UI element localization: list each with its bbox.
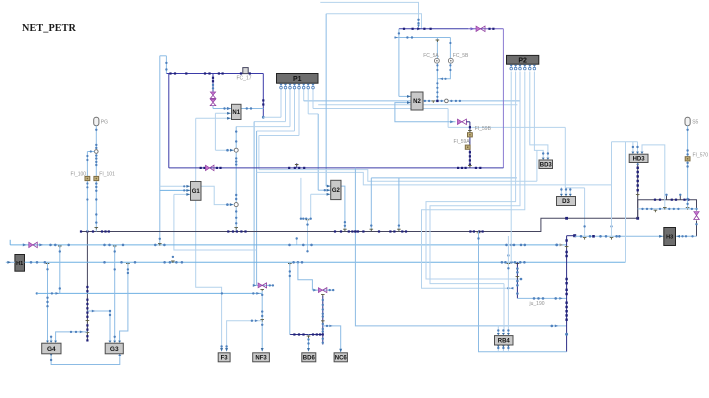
- svg-text:G1: G1: [192, 189, 201, 195]
- wire P1 pin7 east: [308, 113, 318, 115]
- wire navy line n2top: [399, 28, 468, 30]
- node dark chain dots: [86, 286, 88, 342]
- wire D3 pin3 stub: [569, 187, 571, 196]
- wire G1 pin2 line: [160, 189, 191, 191]
- node n2 vert dots: [398, 32, 400, 34]
- pin valve V2 in: [471, 27, 475, 30]
- junction tee pg: [95, 227, 99, 229]
- node dark dots west: [80, 230, 110, 232]
- sink BD3: [539, 160, 553, 169]
- pin G2 in1: [327, 185, 331, 188]
- pin BD3 in1: [542, 158, 545, 160]
- instrument FC_5B: [448, 58, 453, 63]
- svg-text:FI_570: FI_570: [693, 153, 709, 159]
- wire x611 drop: [611, 142, 613, 237]
- wire NC6 route: [323, 326, 341, 352]
- wire hook top: [160, 55, 167, 57]
- wire P1 pin3 west: [236, 126, 290, 128]
- wire jog y188: [565, 187, 584, 189]
- node dark dots g2: [334, 230, 365, 232]
- label FI_101: [99, 171, 115, 177]
- junction tee chain87 a: [86, 321, 90, 323]
- wire G2 pin3 line: [311, 193, 331, 195]
- svg-text:FI_59A: FI_59A: [454, 139, 471, 145]
- wire valve chain: [212, 74, 214, 92]
- node PG split: [95, 150, 99, 154]
- pin ju east arrow: [559, 297, 562, 300]
- node navy right vert end: [262, 116, 265, 119]
- wire dark main line: [81, 200, 697, 232]
- wire HD3 pin2 stub: [637, 142, 639, 154]
- node junction J2: [234, 203, 238, 207]
- wire purple vertical: [502, 29, 504, 168]
- pin RB4 in2: [502, 333, 505, 335]
- wire HD3 top line: [612, 141, 638, 143]
- pin bus245 valve out: [39, 243, 43, 246]
- node fi100 dots: [86, 150, 92, 200]
- wire drop x584: [584, 188, 586, 236]
- pin H1 in: [7, 261, 11, 264]
- wire line to H3: [575, 235, 664, 237]
- pin F3 arrow1: [220, 348, 223, 352]
- label ju_190: [529, 301, 545, 307]
- source S5: [685, 117, 690, 125]
- sink NF3: [253, 353, 270, 362]
- node hd3 pin dots: [632, 146, 639, 148]
- node bus262 dots b: [103, 261, 183, 264]
- wire P1 pin7: [307, 89, 309, 114]
- junction v2chain tee: [321, 321, 325, 323]
- label FI_59A: [454, 139, 471, 145]
- svg-text:RB4: RB4: [498, 338, 511, 344]
- wire pin5 drop: [258, 136, 260, 170]
- node nf3 dots2: [261, 324, 263, 326]
- svg-text:FI_100: FI_100: [71, 171, 87, 177]
- pin BD6 arrow: [307, 348, 310, 352]
- node f3p2 dots: [251, 320, 253, 322]
- junction l209 tee655: [654, 210, 658, 212]
- node fc5a dots: [436, 64, 438, 98]
- wire G1 bottom route: [196, 200, 222, 350]
- pin N2 in2: [407, 101, 411, 104]
- wire HD3 pin1 stub: [632, 142, 634, 154]
- pin G1 in1: [186, 185, 190, 188]
- wire long line y293: [48, 292, 263, 294]
- node h3 right dots: [681, 235, 693, 237]
- label FC_17: [237, 76, 252, 82]
- wire line to D3: [257, 172, 612, 185]
- wire P1 pin4: [294, 89, 296, 132]
- pin valve1 in: [253, 284, 257, 287]
- svg-text:FI_59B: FI_59B: [475, 126, 492, 132]
- wire valve2 feed: [298, 262, 313, 290]
- wire BD6 stub: [308, 335, 310, 351]
- pin ju branch arrow: [510, 287, 513, 290]
- node cluster dots: [300, 218, 312, 220]
- pin P2 out6: [533, 65, 536, 70]
- node bus262 dots d: [501, 261, 526, 264]
- pin rb4line arrow: [555, 325, 558, 328]
- pin N1 in1: [227, 107, 231, 110]
- wire G4 pin1 riser: [47, 262, 49, 341]
- node valve1 dots: [269, 284, 275, 286]
- node rb4 top dots: [497, 329, 510, 331]
- node pg dots1: [95, 129, 97, 149]
- pin n2top arrow: [417, 27, 421, 30]
- node pg dots2: [95, 154, 97, 166]
- pin y293 arrow e: [256, 292, 259, 295]
- node bus245 dots d: [505, 244, 526, 247]
- wire RB4 pin1 stub: [497, 326, 499, 333]
- valve V6: [29, 242, 38, 248]
- svg-text:D3: D3: [562, 199, 570, 205]
- pin valve V3 in: [450, 120, 454, 123]
- valve V3: [457, 119, 466, 125]
- node dark dot x566: [565, 217, 568, 220]
- wire Z2: [430, 72, 520, 284]
- junction bus tee: [295, 165, 299, 167]
- node circle feed dot: [226, 149, 229, 152]
- label S5: [692, 120, 698, 126]
- junction tee x344: [343, 229, 347, 231]
- wire G1 right route: [201, 186, 234, 204]
- node bus262 dots c: [292, 261, 303, 264]
- instrument FC_17: [243, 68, 248, 74]
- pin N1 in3: [227, 117, 231, 120]
- junction bd6 tee: [307, 336, 311, 338]
- device H3: [664, 228, 676, 246]
- wire N1 circle chain: [235, 127, 237, 232]
- wire v2chain tail: [322, 335, 324, 345]
- node N1: [232, 104, 242, 119]
- wire cluster drop: [307, 219, 309, 245]
- wire G1 top riser: [195, 118, 197, 181]
- node g3p2 dots: [114, 250, 116, 338]
- wire S5 chain: [687, 126, 689, 209]
- wire dark chain x87: [86, 232, 88, 341]
- svg-text:NF3: NF3: [255, 355, 267, 361]
- node g1p2 dot: [183, 189, 185, 191]
- node g4 bottom dot: [50, 359, 52, 361]
- wire RB4 pin3 drop: [507, 262, 509, 333]
- pin P1 out3: [288, 84, 291, 89]
- junction valve1 tee: [260, 289, 264, 291]
- node pg dots3: [95, 182, 97, 223]
- node g4p2 dot: [50, 336, 52, 338]
- wire pin8 jog down: [447, 109, 449, 128]
- sink BD6: [302, 353, 316, 362]
- valve V1a: [210, 92, 216, 99]
- wire stub 666: [666, 194, 668, 199]
- node g2 right stub dot: [344, 221, 346, 227]
- label PG: [101, 120, 108, 126]
- pin G4 in1: [46, 341, 49, 343]
- wire navy top line: [167, 73, 264, 75]
- svg-text:G3: G3: [110, 346, 119, 353]
- wire bus stub up: [296, 237, 298, 245]
- instrument FI_101: [94, 176, 99, 180]
- node v2tail dots: [322, 338, 324, 344]
- wire Z1: [426, 72, 521, 280]
- wire bus 245 end stub: [9, 240, 11, 245]
- pin D3 in3: [569, 194, 572, 196]
- junction tee bus245 x159: [158, 244, 162, 246]
- junction tee FC5A top: [436, 40, 440, 42]
- wire bd6 feed vert: [289, 262, 291, 334]
- node bus stub dot: [296, 237, 298, 239]
- wire H3 right: [676, 235, 697, 237]
- node s5 dots: [686, 129, 688, 205]
- node fi59 dots: [469, 126, 471, 166]
- source PG: [94, 117, 99, 125]
- wire chain566 top corner: [567, 235, 575, 237]
- node bus245 dots b: [154, 244, 166, 247]
- junction l209 tee687: [686, 208, 690, 210]
- wire drop x398: [398, 178, 400, 232]
- pin P2 out1: [510, 65, 513, 70]
- svg-text:BD3: BD3: [540, 162, 553, 168]
- node l209 dots: [641, 208, 693, 210]
- sink NC6: [334, 353, 347, 362]
- node fc5b dots: [449, 42, 451, 71]
- wire Z3: [422, 72, 525, 289]
- node nf3 dots: [261, 294, 263, 318]
- wire P1 pin1 west: [263, 116, 281, 118]
- svg-text:PG: PG: [101, 120, 108, 126]
- junction tee x478: [477, 233, 481, 235]
- wire PG branch: [87, 151, 94, 153]
- svg-text:N1: N1: [232, 110, 240, 116]
- wire PG chain: [95, 126, 97, 232]
- wire RB4 bot1: [497, 345, 499, 352]
- well G4: [42, 343, 61, 354]
- pin RB4 in3: [507, 333, 510, 335]
- wire P1 pin4 west: [257, 130, 295, 132]
- pin F3 arrow2: [225, 348, 228, 352]
- junction tee chain87 b: [86, 332, 90, 334]
- pin P1 out8: [311, 84, 314, 89]
- junction tee bus262 x517: [516, 264, 520, 266]
- wire P1 pin6 east line: [304, 100, 520, 102]
- wire valve-N1 horizontal: [213, 108, 232, 110]
- instrument FI_100: [85, 176, 90, 180]
- pin lineA arrow: [417, 25, 420, 28]
- wire y37 branch: [394, 37, 450, 39]
- wire G3 pin1 route: [87, 311, 110, 341]
- node ju east dots: [533, 297, 557, 300]
- pin H3 in right: [676, 235, 680, 238]
- sink F3: [218, 353, 230, 362]
- wire P1 pin8: [312, 89, 314, 109]
- wire ju chain: [516, 262, 518, 298]
- junction h3line tee585: [583, 238, 587, 240]
- junction tee bus245 x114: [113, 246, 117, 248]
- node dark dots mid: [378, 230, 407, 232]
- junction nf3 tee: [260, 320, 264, 322]
- node c566 dots b: [565, 278, 567, 295]
- svg-text:H1: H1: [16, 261, 23, 267]
- svg-text:H3: H3: [666, 234, 673, 240]
- svg-text:P1: P1: [293, 76, 302, 83]
- wire bd6 navy: [290, 334, 323, 336]
- wire navy right vertical: [262, 74, 264, 118]
- node bus262 dot x172: [172, 256, 174, 258]
- node c566 dots c: [565, 302, 567, 321]
- node valve2 dots: [329, 289, 335, 291]
- wire G4 bottom route: [51, 354, 120, 365]
- node lineA drop dots: [417, 19, 419, 25]
- pin P2 out2: [514, 65, 517, 70]
- wire G2 pin2 riser: [317, 114, 319, 190]
- junction tee bus fi59: [468, 166, 472, 168]
- node h3line dots: [580, 235, 621, 238]
- node cluster stub dots: [306, 223, 308, 252]
- node dark dots east: [469, 230, 483, 232]
- svg-text:F3: F3: [221, 355, 229, 361]
- pin P1 out6: [302, 84, 305, 89]
- wire x59 drop: [59, 245, 61, 294]
- pin J2 in: [230, 203, 234, 206]
- node n2top dots: [403, 28, 432, 30]
- pin G2 in3: [327, 193, 331, 196]
- wire y293 west stub: [37, 292, 48, 294]
- node y37 dots: [406, 36, 413, 38]
- junction c566 tee245: [565, 246, 569, 248]
- node n2line dots: [424, 100, 461, 102]
- well G3: [105, 343, 123, 354]
- node ju dots: [516, 267, 519, 295]
- title NET_PETR: [22, 23, 77, 34]
- pin BD3 in2: [546, 158, 549, 160]
- wire valve1 feed B: [256, 131, 258, 285]
- junction valve2 tee: [321, 294, 325, 296]
- junction hd3bot tee: [636, 194, 640, 196]
- pin g4p3 arrow: [80, 331, 83, 334]
- wire line y178: [371, 177, 517, 179]
- junction ju tee: [516, 277, 520, 279]
- node h3line stub dots: [583, 225, 612, 227]
- node chain dots low2: [235, 210, 237, 224]
- node g4p3 dots: [70, 331, 77, 333]
- pin valve2 in: [313, 289, 317, 292]
- wire N1 pin2 vertical: [214, 113, 216, 150]
- wire valve to N1: [212, 106, 214, 109]
- pin RB4 out1: [497, 345, 500, 347]
- pin G1 in2: [186, 189, 190, 192]
- node rb4 bot dots: [497, 347, 510, 349]
- pin G4 in3: [54, 341, 57, 343]
- wire FI100 chain: [86, 152, 88, 232]
- node g1p1 dot: [183, 185, 185, 187]
- wire N1 pin3 horiz: [196, 117, 232, 119]
- junction tee fi59: [468, 131, 472, 133]
- wire N1 pin2 horiz: [215, 112, 231, 114]
- svg-text:P2: P2: [518, 57, 527, 64]
- node navy top line dots: [169, 72, 251, 74]
- pin P1 out4: [293, 84, 296, 89]
- svg-text:FI_101: FI_101: [99, 171, 115, 177]
- wire D3 pin2 stub: [565, 187, 567, 196]
- node c566 topdot: [573, 234, 576, 237]
- wire valve1 feed A: [253, 122, 255, 286]
- node N2: [411, 92, 423, 110]
- junction tee chain: [234, 228, 238, 230]
- node navy right vert dots: [262, 99, 264, 105]
- pin N2 in1: [407, 95, 411, 98]
- wire D3 pin1 stub: [560, 187, 562, 196]
- wire NF3 chain: [261, 291, 263, 351]
- node rb4line dots e: [551, 325, 554, 328]
- svg-text:NET_PETR: NET_PETR: [22, 23, 77, 34]
- pin y293 arrow: [56, 292, 59, 295]
- wire RB4 long line: [355, 168, 566, 326]
- node c566 dots a: [565, 239, 567, 257]
- junction tee bus262 x47: [46, 264, 50, 266]
- wire G2 pin1 horiz: [326, 185, 331, 187]
- pin bus245 valve in: [23, 243, 27, 246]
- wire RB4 bot2: [502, 345, 504, 352]
- pin HD3 bottom: [636, 163, 639, 165]
- node chain dots lower: [235, 194, 237, 200]
- label FI_570: [693, 153, 709, 159]
- valve V1b: [210, 99, 216, 106]
- pin P1 out1: [279, 84, 282, 89]
- wire P1 pin8 east: [313, 108, 448, 110]
- node y293 dots: [36, 292, 255, 294]
- wire bus tick up: [296, 163, 298, 168]
- junction l209 tee665: [663, 208, 667, 210]
- wire ju east: [517, 297, 566, 299]
- svg-text:FC_5B: FC_5B: [453, 53, 469, 59]
- pin bus245 end arrow: [560, 243, 564, 246]
- node g1 right dots: [226, 203, 229, 206]
- wire N2 pin2 route: [395, 103, 456, 122]
- node valve5 dots: [695, 208, 697, 226]
- pin fc merge arrow: [440, 78, 443, 81]
- sink RB4: [495, 336, 514, 345]
- node h3line navydots: [592, 235, 595, 238]
- sink HD3: [629, 154, 648, 162]
- pin nc6 arrow: [329, 325, 332, 328]
- valve V8: [318, 288, 327, 293]
- pin H3 in: [659, 235, 663, 238]
- node f3 pin dots: [220, 345, 227, 347]
- node bus dots left: [200, 167, 222, 169]
- wire P2 pin1 drop: [510, 72, 512, 263]
- svg-text:NC6: NC6: [335, 355, 348, 361]
- node valve chain dot blue: [212, 84, 214, 90]
- node bus245 dots a: [49, 244, 124, 247]
- wire FC5A chain: [436, 38, 438, 101]
- pin D3 in1: [560, 194, 563, 196]
- wire P1 pin5 west: [259, 135, 299, 137]
- wire drop x478: [479, 232, 567, 352]
- wire line A: [320, 2, 418, 28]
- wire cluster riser: [300, 178, 302, 219]
- node g3p1 dots: [109, 310, 111, 316]
- wire G3 pin2 riser: [114, 245, 116, 341]
- instrument FI_570: [685, 157, 690, 161]
- wire FI59 chain: [469, 122, 471, 168]
- wire line to BD3: [259, 170, 537, 182]
- wire G2 pin2 horiz: [318, 189, 331, 191]
- pin y37 arrow: [395, 36, 398, 39]
- pin D3 in2: [565, 194, 568, 196]
- instrument FI_59A: [465, 145, 470, 149]
- pin NF3 arrow: [261, 348, 264, 352]
- wire G4 pin2 stub: [50, 336, 52, 342]
- svg-text:HD3: HD3: [633, 157, 646, 163]
